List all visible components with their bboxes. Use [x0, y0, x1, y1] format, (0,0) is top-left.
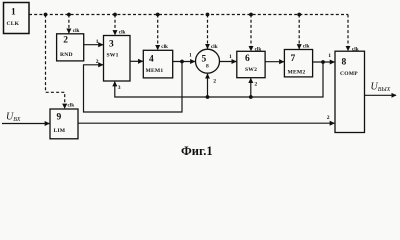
wire clk drop to MEM2 — [298, 15, 300, 49]
svg-text:1: 1 — [11, 7, 16, 17]
wire branch to adder input 2 — [207, 74, 209, 97]
svg-text:1: 1 — [189, 53, 192, 59]
block 7 MEM2 — [284, 50, 312, 77]
wire LIM output to COMP input 2 — [78, 122, 334, 124]
svg-text:1: 1 — [328, 53, 331, 59]
junction MEM2 output node — [321, 60, 325, 64]
svg-text:8: 8 — [206, 64, 209, 70]
svg-text:2: 2 — [96, 59, 99, 65]
svg-text:clk: clk — [119, 30, 126, 36]
junction on clock bus at SW2 drop — [249, 13, 253, 17]
block 3 SW1 — [104, 36, 131, 82]
block 2 RND — [57, 34, 84, 61]
block 4 MEM1 — [143, 50, 172, 78]
wire SW1 output to MEM1 — [130, 60, 143, 62]
junction on clock bus at MEM2 drop — [297, 13, 301, 17]
wire input Uin to LIM — [2, 123, 49, 125]
svg-text:9: 9 — [57, 113, 62, 123]
svg-text:UВХ: UВХ — [6, 112, 21, 124]
wire feedback MEM1 to SW1 input 2 — [84, 62, 183, 113]
junction on clock bus at SW1 drop — [113, 13, 117, 17]
svg-text:clk: clk — [73, 28, 80, 34]
block 8 COMP — [335, 51, 365, 132]
op-amp adder circle 5 — [196, 49, 220, 73]
svg-text:Фиг.1: Фиг.1 — [181, 144, 213, 158]
junction feedback at adder branch — [206, 95, 210, 99]
svg-text:2: 2 — [254, 82, 257, 88]
svg-text:2: 2 — [327, 115, 330, 121]
wire clk drop to LIM — [46, 15, 65, 109]
junction on clock bus at adder drop — [206, 13, 210, 17]
block 6 SW2 — [237, 51, 265, 77]
svg-text:clk: clk — [352, 46, 359, 52]
svg-text:7: 7 — [291, 54, 296, 64]
svg-text:clk: clk — [161, 44, 168, 50]
svg-text:UВЫХ: UВЫХ — [371, 82, 391, 94]
svg-text:CLK: CLK — [7, 21, 20, 27]
wire feedback MEM2 to SW1 input 3 — [115, 62, 323, 97]
svg-text:SW1: SW1 — [107, 53, 119, 59]
svg-text:LIM: LIM — [54, 128, 66, 134]
junction feedback at SW2 branch — [249, 95, 253, 99]
wire MEM2 output to COMP input 1 — [313, 61, 335, 63]
svg-text:8: 8 — [342, 58, 347, 68]
svg-text:COMP: COMP — [340, 71, 358, 77]
svg-text:clk: clk — [68, 103, 75, 109]
svg-text:clk: clk — [303, 44, 310, 50]
svg-text:2: 2 — [213, 79, 216, 85]
wire clk drop to RND — [68, 15, 70, 34]
wire clk drop to COMP — [347, 15, 349, 51]
svg-text:clk: clk — [211, 44, 218, 50]
wire clk drop to adder — [207, 15, 209, 49]
block 9 LIM — [50, 109, 78, 139]
wire clk drop to SW1 — [114, 15, 116, 35]
wire branch to SW2 input 2 — [250, 78, 252, 97]
svg-text:4: 4 — [149, 55, 154, 65]
svg-text:6: 6 — [245, 54, 250, 64]
svg-text:2: 2 — [63, 36, 68, 46]
svg-text:1: 1 — [229, 54, 232, 60]
junction on clock bus at LIM drop — [44, 13, 48, 17]
svg-text:3: 3 — [109, 40, 114, 50]
svg-text:clk: clk — [255, 46, 262, 52]
wire COMP output Uout — [365, 94, 397, 96]
junction on clock bus at RND drop — [67, 13, 71, 17]
wire clk drop to MEM1 — [157, 15, 159, 50]
svg-text:1: 1 — [96, 39, 99, 45]
svg-text:SW2: SW2 — [245, 67, 257, 73]
junction MEM1 output node — [180, 60, 184, 64]
block 1 CLK — [4, 3, 30, 34]
wire RND output to SW1 input 1 — [84, 44, 103, 46]
wire clk drop to SW2 — [250, 15, 252, 51]
clock bus dashed horizontal — [29, 14, 348, 16]
junction on clock bus at MEM1 drop — [156, 13, 160, 17]
wire adder output to SW2 input 1 — [220, 61, 237, 63]
svg-text:3: 3 — [118, 85, 121, 91]
wire SW2 output to MEM2 — [265, 61, 284, 63]
svg-text:MEM2: MEM2 — [288, 70, 306, 76]
svg-text:RND: RND — [60, 52, 73, 58]
svg-text:MEM1: MEM1 — [146, 68, 164, 74]
wire MEM1 output to adder input 1 — [173, 61, 195, 63]
